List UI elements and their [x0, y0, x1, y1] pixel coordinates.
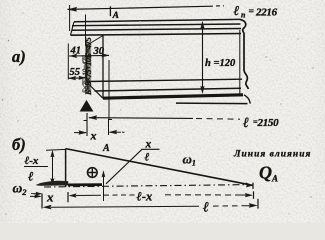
section line A lower part — [108, 60, 110, 119]
influence line right tick — [252, 183, 254, 189]
svg-text:а): а) — [12, 47, 26, 66]
dimension l row — [43, 199, 259, 216]
ordinate arrow at section — [102, 170, 106, 199]
section mark A top — [110, 6, 119, 21]
fraction (l-x)/l — [24, 155, 48, 184]
extension tick for lp dimension — [69, 5, 71, 31]
influence line end arrow blob — [246, 182, 254, 187]
svg-text:б): б) — [12, 135, 26, 154]
svg-text:ℓ-x: ℓ-x — [25, 155, 39, 167]
beam left near vertical edge — [102, 35, 104, 98]
beam bottom near edge line (thick) — [103, 95, 243, 98]
extension tick at section for l-x — [103, 187, 105, 201]
label omega2 with leader arrow — [13, 181, 43, 198]
svg-text:5×75+10=475: 5×75+10=475 — [80, 55, 89, 93]
beam top far edge line — [74, 19, 240, 21]
dimension 41 with arrows — [69, 46, 110, 59]
svg-text:А: А — [102, 143, 110, 154]
beam left slant of top face — [71, 22, 75, 35]
left ordinate dimension arrows — [50, 150, 54, 186]
dimension l-x row — [69, 189, 254, 203]
beam top near edge line — [71, 34, 242, 36]
svg-text:2216: 2216 — [255, 7, 278, 19]
support extension line — [86, 113, 88, 136]
svg-text:п: п — [241, 10, 246, 19]
extension line from influence corner — [46, 148, 66, 151]
svg-text:30: 30 — [93, 46, 105, 57]
influence line left vertical edge — [65, 149, 67, 187]
svg-text:ℓ: ℓ — [234, 3, 240, 18]
svg-text:ℓ: ℓ — [145, 152, 150, 164]
faint vertical scan line inside beam — [139, 21, 141, 96]
omega2 negative area wedge — [36, 181, 69, 186]
beam right body edge — [239, 30, 241, 96]
dimension l=2150 — [88, 115, 279, 131]
x dimension (drawing a) — [74, 119, 126, 143]
beam bottom chamfer line — [95, 88, 242, 91]
dimension line lp=2216 — [67, 6, 224, 12]
svg-text:ℓ: ℓ — [203, 201, 209, 216]
beam bottom-left slant edge — [87, 82, 104, 98]
beam bottom far edge line — [87, 79, 243, 81]
support triangle at A — [80, 100, 94, 112]
beam top chamfer line 2 — [72, 29, 242, 31]
thick axis overdraw bar — [68, 183, 102, 186]
extension line left of 41 — [67, 44, 69, 80]
beam top-left slant edge — [87, 36, 104, 46]
leader line to x/l fraction — [106, 149, 142, 184]
svg-text:2150: 2150 — [257, 117, 280, 129]
influence line sloping edge — [66, 149, 253, 186]
svg-text:ℓ: ℓ — [28, 169, 34, 184]
beam top chamfer line 1 — [72, 24, 241, 26]
rotated text backdrop band — [85, 42, 91, 92]
svg-text:А: А — [112, 11, 119, 21]
far-left edge extension line — [85, 15, 87, 46]
dimension h=120 vertical line with arrows — [200, 21, 236, 94]
svg-text:ℓ-x: ℓ-x — [137, 189, 153, 203]
beam right cap bottom flare — [244, 95, 250, 104]
svg-text:ℓ: ℓ — [243, 116, 249, 131]
svg-text:Линия влияния: Линия влияния — [233, 150, 311, 160]
base axis dash-dot — [44, 185, 250, 187]
beam bottom lip line right — [176, 102, 248, 105]
svg-text:x: x — [46, 190, 54, 205]
beam right end cap outline — [240, 19, 248, 89]
circled plus positive area mark — [88, 168, 98, 178]
dimension 55 with arrows — [68, 67, 87, 80]
svg-text:h =120: h =120 — [205, 58, 236, 69]
fraction x/l — [142, 139, 160, 164]
svg-text:x: x — [90, 129, 97, 143]
beam left far vertical edge — [86, 46, 88, 83]
x dimension row (diagram b) — [30, 190, 68, 209]
svg-text:=: = — [249, 7, 254, 17]
